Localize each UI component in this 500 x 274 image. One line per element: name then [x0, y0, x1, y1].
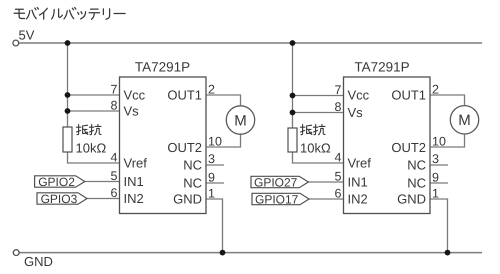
- svg-text:10: 10: [208, 135, 222, 149]
- svg-text:NC: NC: [183, 158, 202, 173]
- svg-text:TA7291P: TA7291P: [354, 60, 409, 75]
- svg-text:M: M: [234, 112, 247, 129]
- svg-text:IN2: IN2: [348, 192, 368, 207]
- svg-text:OUT1: OUT1: [167, 88, 202, 103]
- svg-text:10kΩ: 10kΩ: [300, 141, 331, 156]
- svg-text:10: 10: [432, 135, 446, 149]
- svg-text:4: 4: [335, 151, 342, 165]
- svg-text:GPIO2: GPIO2: [38, 175, 75, 189]
- svg-text:IN1: IN1: [124, 174, 144, 189]
- svg-text:10kΩ: 10kΩ: [76, 141, 107, 156]
- svg-text:Vcc: Vcc: [348, 88, 370, 103]
- svg-text:Vref: Vref: [348, 156, 372, 171]
- svg-text:3: 3: [432, 152, 439, 166]
- svg-text:8: 8: [111, 99, 118, 113]
- svg-text:5: 5: [335, 170, 342, 184]
- svg-text:9: 9: [208, 171, 215, 185]
- svg-text:Vs: Vs: [124, 104, 140, 119]
- svg-text:4: 4: [111, 151, 118, 165]
- svg-text:1: 1: [432, 187, 439, 201]
- svg-text:GND: GND: [24, 254, 53, 269]
- svg-text:GND: GND: [173, 191, 202, 206]
- svg-text:2: 2: [432, 83, 439, 97]
- svg-text:NC: NC: [407, 158, 426, 173]
- svg-text:OUT2: OUT2: [391, 140, 426, 155]
- svg-text:OUT2: OUT2: [167, 140, 202, 155]
- svg-text:5: 5: [111, 169, 118, 183]
- svg-text:5V: 5V: [19, 28, 35, 43]
- svg-text:1: 1: [208, 187, 215, 201]
- svg-text:GPIO17: GPIO17: [255, 192, 299, 206]
- svg-text:GND: GND: [397, 191, 426, 206]
- svg-text:8: 8: [335, 100, 342, 114]
- svg-text:6: 6: [335, 187, 342, 201]
- svg-text:Vs: Vs: [348, 105, 364, 120]
- svg-text:6: 6: [111, 186, 118, 200]
- svg-text:GPIO3: GPIO3: [41, 192, 78, 206]
- svg-text:9: 9: [432, 171, 439, 185]
- svg-text:NC: NC: [183, 176, 202, 191]
- svg-text:M: M: [458, 112, 471, 129]
- svg-text:IN1: IN1: [348, 175, 368, 190]
- svg-text:TA7291P: TA7291P: [135, 60, 190, 75]
- svg-text:IN2: IN2: [124, 191, 144, 206]
- svg-text:NC: NC: [407, 176, 426, 191]
- svg-text:7: 7: [335, 83, 342, 97]
- svg-text:GPIO27: GPIO27: [254, 175, 298, 189]
- svg-text:3: 3: [208, 152, 215, 166]
- svg-text:Vcc: Vcc: [124, 88, 146, 103]
- svg-text:7: 7: [111, 83, 118, 97]
- svg-text:2: 2: [208, 83, 215, 97]
- svg-text:Vref: Vref: [124, 156, 148, 171]
- svg-text:OUT1: OUT1: [391, 88, 426, 103]
